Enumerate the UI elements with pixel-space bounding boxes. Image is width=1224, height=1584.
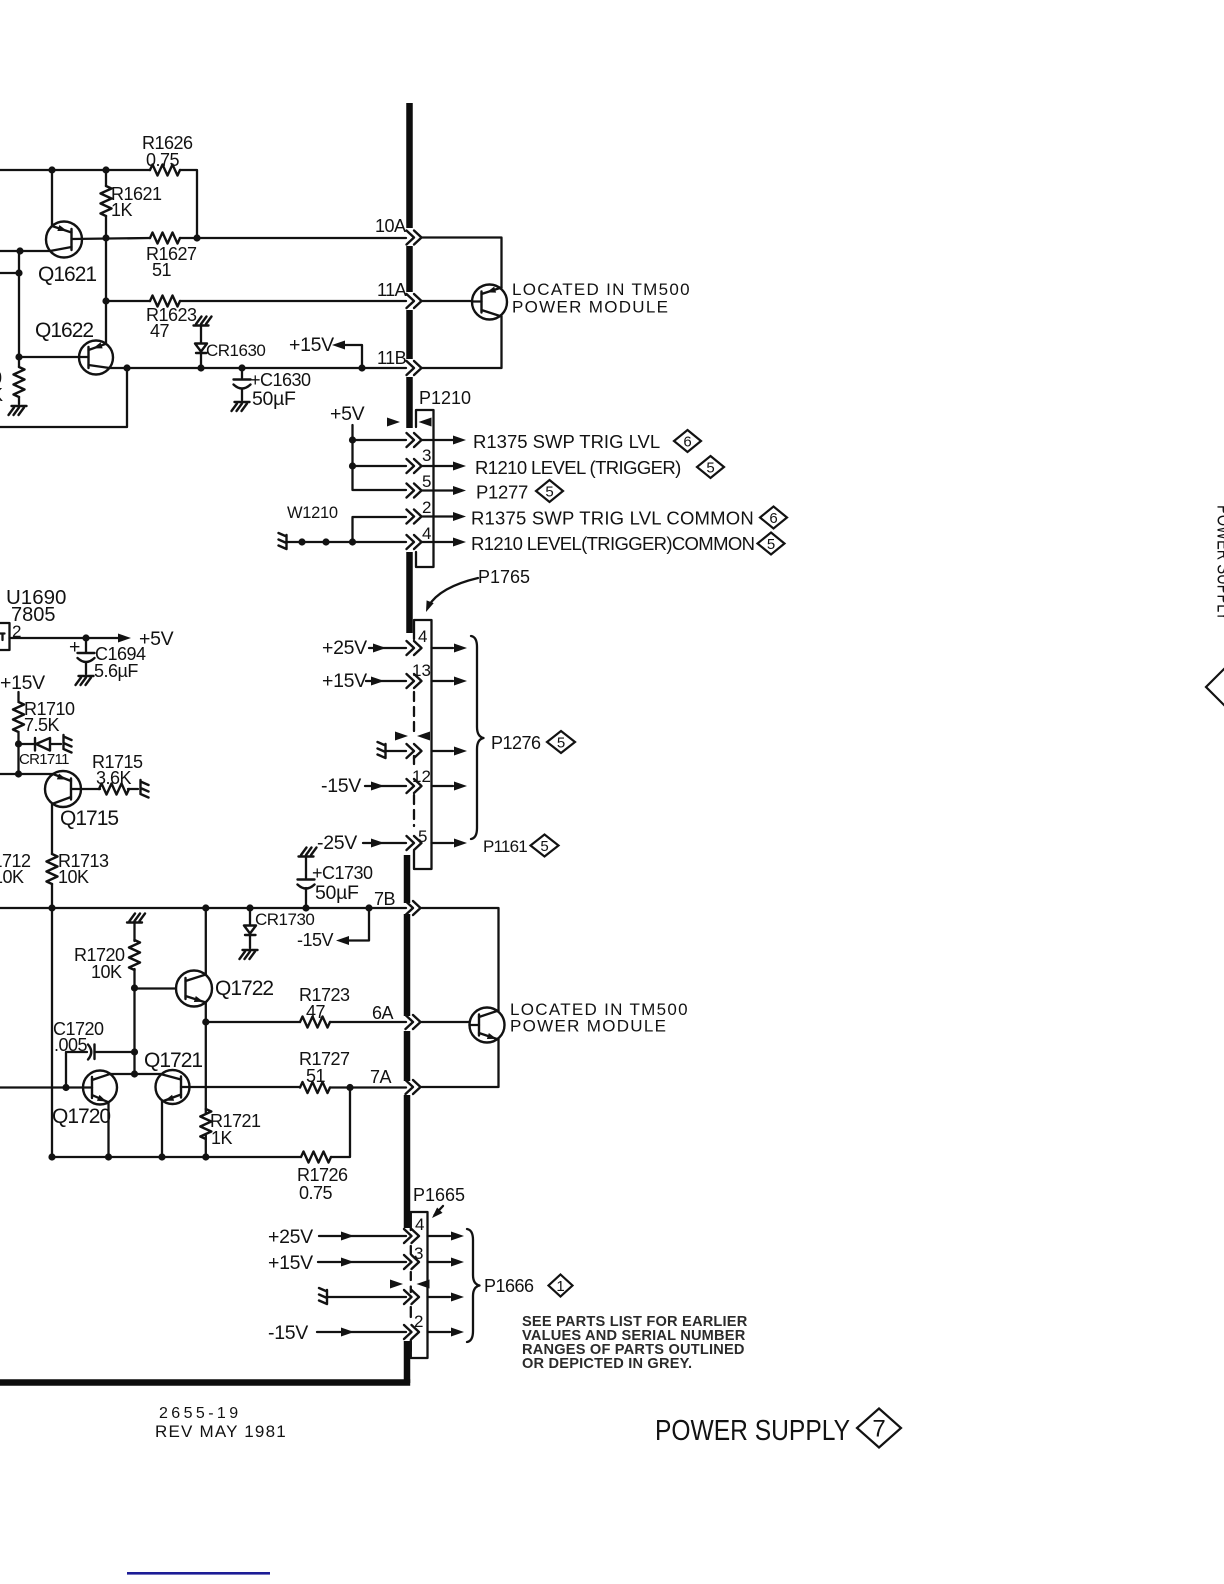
svg-text:Q1622: Q1622 xyxy=(35,319,93,342)
svg-text:+25V: +25V xyxy=(322,637,367,659)
svg-text:R1375 SWP TRIG LVL: R1375 SWP TRIG LVL xyxy=(473,431,660,452)
svg-text:POWER SUPPLY: POWER SUPPLY xyxy=(655,1415,850,1447)
svg-text:6: 6 xyxy=(683,434,691,451)
svg-text:10A: 10A xyxy=(375,216,406,236)
svg-text:-15V: -15V xyxy=(321,775,361,797)
svg-text:+25V: +25V xyxy=(268,1226,313,1248)
svg-text:7.5K: 7.5K xyxy=(24,715,60,735)
svg-text:3: 3 xyxy=(422,446,431,465)
svg-text:+5V: +5V xyxy=(330,403,365,425)
svg-text:Q1715: Q1715 xyxy=(60,807,118,830)
svg-text:W1210: W1210 xyxy=(287,504,338,522)
svg-text:LOCATED IN TM500: LOCATED IN TM500 xyxy=(512,280,691,299)
svg-text:Q1720: Q1720 xyxy=(52,1105,110,1128)
svg-text:5: 5 xyxy=(545,484,553,501)
svg-text:7B: 7B xyxy=(374,889,396,909)
svg-text:+15V: +15V xyxy=(268,1252,313,1274)
svg-text:50µF: 50µF xyxy=(315,882,359,904)
svg-text:3: 3 xyxy=(414,1244,423,1263)
svg-text:1K: 1K xyxy=(111,200,133,220)
svg-text:10K: 10K xyxy=(0,867,24,887)
svg-text:1K: 1K xyxy=(211,1128,233,1148)
svg-text:-15V: -15V xyxy=(297,930,334,950)
svg-text:10K: 10K xyxy=(91,962,122,982)
svg-text:47: 47 xyxy=(150,321,170,341)
svg-text:0.75: 0.75 xyxy=(146,150,180,170)
svg-text:5: 5 xyxy=(557,735,565,752)
svg-text:13: 13 xyxy=(412,661,431,680)
svg-text:5: 5 xyxy=(418,827,427,846)
svg-text:-25V: -25V xyxy=(317,832,357,854)
svg-text:OR DEPICTED IN GREY.: OR DEPICTED IN GREY. xyxy=(522,1356,692,1372)
svg-text:POWER MODULE: POWER MODULE xyxy=(510,1017,667,1036)
svg-text:4: 4 xyxy=(415,1215,424,1234)
svg-text:5: 5 xyxy=(706,460,714,477)
svg-text:+C1730: +C1730 xyxy=(312,863,373,883)
svg-text:Q1722: Q1722 xyxy=(215,977,273,1000)
svg-text:Q1621: Q1621 xyxy=(38,263,96,286)
svg-text:CR1711: CR1711 xyxy=(19,751,69,768)
svg-text:R1210 LEVEL(TRIGGER)COMMON: R1210 LEVEL(TRIGGER)COMMON xyxy=(471,533,754,554)
svg-text:REV MAY 1981: REV MAY 1981 xyxy=(155,1422,287,1441)
svg-text:51: 51 xyxy=(306,1066,326,1086)
svg-text:POWER MODULE: POWER MODULE xyxy=(512,298,669,317)
svg-text:12: 12 xyxy=(412,767,431,786)
svg-text:47: 47 xyxy=(306,1002,326,1022)
svg-text:5: 5 xyxy=(767,536,775,553)
svg-text:2655-19: 2655-19 xyxy=(159,1405,242,1422)
svg-text:11A: 11A xyxy=(377,280,407,300)
svg-text:1: 1 xyxy=(556,1278,564,1295)
svg-text:51: 51 xyxy=(152,260,172,280)
svg-text:50µF: 50µF xyxy=(252,388,296,410)
svg-text:P1210: P1210 xyxy=(419,388,471,408)
svg-text:P1276: P1276 xyxy=(491,733,541,753)
svg-text:R1726: R1726 xyxy=(297,1165,348,1185)
svg-text:+C1630: +C1630 xyxy=(250,370,311,390)
svg-text:P1161: P1161 xyxy=(483,837,527,856)
svg-text:P1665: P1665 xyxy=(413,1185,465,1205)
svg-text:2: 2 xyxy=(422,498,431,517)
svg-text:+: + xyxy=(69,636,80,658)
svg-text:CR1630: CR1630 xyxy=(206,341,265,360)
svg-text:+15V: +15V xyxy=(289,334,334,356)
svg-text:3.6K: 3.6K xyxy=(96,768,132,788)
svg-text:POWER SUPPLY: POWER SUPPLY xyxy=(1213,505,1224,621)
svg-text:6: 6 xyxy=(769,510,777,527)
svg-text:P1666: P1666 xyxy=(484,1276,534,1296)
svg-text:-15V: -15V xyxy=(268,1322,308,1344)
svg-text:6A: 6A xyxy=(372,1003,394,1023)
svg-text:5.6µF: 5.6µF xyxy=(94,661,138,681)
svg-text:P1277: P1277 xyxy=(476,482,528,503)
svg-text:CR1730: CR1730 xyxy=(255,910,314,929)
svg-text:11B: 11B xyxy=(377,348,407,368)
svg-text:+15V: +15V xyxy=(0,672,45,694)
svg-text:2: 2 xyxy=(414,1312,423,1331)
svg-text:0.75: 0.75 xyxy=(299,1183,333,1203)
svg-text:P1765: P1765 xyxy=(478,567,530,587)
svg-text:Q1721: Q1721 xyxy=(144,1049,202,1072)
svg-text:+15V: +15V xyxy=(322,670,367,692)
svg-text:4: 4 xyxy=(418,627,427,646)
svg-text:R1375 SWP TRIG LVL COMMON: R1375 SWP TRIG LVL COMMON xyxy=(471,508,754,529)
svg-text:10K: 10K xyxy=(58,867,89,887)
svg-text:4: 4 xyxy=(422,524,431,543)
svg-text:7A: 7A xyxy=(370,1067,392,1087)
svg-text:R1210 LEVEL (TRIGGER): R1210 LEVEL (TRIGGER) xyxy=(475,457,681,478)
svg-text:7: 7 xyxy=(872,1416,885,1443)
svg-text:5: 5 xyxy=(422,472,431,491)
svg-text:5: 5 xyxy=(540,838,548,855)
